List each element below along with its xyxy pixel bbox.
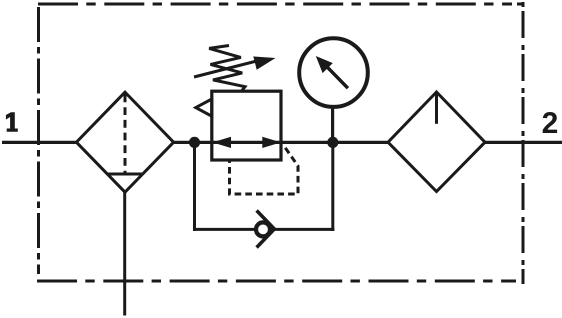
node: junction dot right (gauge branch) (327, 137, 338, 148)
regulator relief vent triangle (196, 99, 212, 116)
enclosure border (dash-dot service unit frame) (37, 2, 523, 284)
pressure gauge G1 (299, 38, 368, 107)
svg-text:2: 2 (542, 107, 559, 140)
wire: bypass right leg (331, 140, 334, 231)
wire: inlet line from port 1 (2, 141, 78, 144)
regulator adjustment spring (209, 46, 245, 91)
wire: main line filter to lubricator (172, 141, 389, 144)
lubricator L1 (right diamond) (388, 92, 485, 192)
check valve V1 (256, 211, 274, 248)
wire: bypass left leg (193, 142, 196, 231)
port 1 label (6, 112, 18, 132)
dashed pilot sensing line (230, 148, 299, 194)
regulator adjustment arrow (194, 56, 276, 77)
wire: bypass bottom line (193, 228, 334, 231)
regulator R1 body (212, 91, 281, 160)
regulator flow arrow (left) (212, 137, 231, 148)
wire: condensate drain line (123, 192, 126, 316)
wire: gauge stem (331, 106, 334, 143)
wire: outlet line to port 2 (484, 141, 562, 144)
filter with water separator F1 (left diamond) (76, 92, 173, 192)
node: junction dot left (regulator branch) (189, 137, 200, 148)
regulator flow arrow (right) (262, 137, 281, 148)
